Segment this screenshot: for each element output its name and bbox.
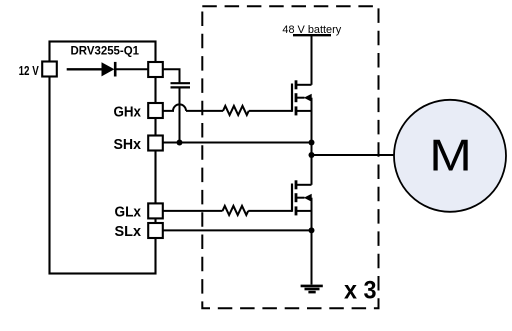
pin square SLx bbox=[148, 223, 163, 238]
svg-text:GHx: GHx bbox=[114, 104, 142, 120]
diode D1 bbox=[102, 62, 116, 77]
transistor Q1 high-side NMOS bbox=[292, 80, 312, 115]
capacitor C1 bootstrap bbox=[171, 83, 191, 87]
wire R1 to Q1 gate bbox=[249, 110, 292, 112]
svg-text:SHx: SHx bbox=[114, 137, 142, 153]
node junction dot SLx-source bbox=[309, 227, 315, 233]
resistor R2 gate low-side bbox=[223, 206, 249, 215]
wire GHx to gate with hop over capacitor wire bbox=[163, 104, 186, 111]
wire Q1 source to Q2 drain node bbox=[311, 98, 313, 185]
svg-text:GLx: GLx bbox=[115, 205, 142, 221]
wire capacitor bottom to SHx net bbox=[179, 87, 181, 142]
wire Q2 source to ground bbox=[311, 198, 313, 285]
wire SLx to source node bbox=[163, 229, 312, 231]
wire GLx to gate bbox=[163, 210, 223, 212]
battery rail bar bbox=[293, 34, 331, 36]
node junction dot SHx-capacitor bbox=[177, 140, 183, 146]
wire diode cathode to BST pin bbox=[116, 68, 148, 70]
wire phase node to motor bbox=[312, 154, 395, 156]
IC block U1 DRV3255-Q1 bbox=[50, 42, 156, 274]
transistor Q2 low-side NMOS bbox=[292, 180, 312, 215]
motor M1 bbox=[394, 100, 506, 212]
svg-text:SLx: SLx bbox=[115, 224, 142, 240]
node junction dot SHx-phase bbox=[309, 140, 315, 146]
wire diode anode bbox=[67, 68, 102, 70]
wire battery to Q1 drain bbox=[311, 35, 313, 85]
svg-text:DRV3255-Q1: DRV3255-Q1 bbox=[71, 45, 140, 57]
wire SHx to node bbox=[163, 142, 312, 144]
wire BST pin to capacitor top bbox=[163, 69, 180, 83]
svg-text:M: M bbox=[429, 131, 472, 180]
resistor R1 gate high-side bbox=[223, 106, 249, 115]
pin square SHx bbox=[148, 136, 163, 151]
pin square GHx bbox=[148, 103, 163, 118]
ground bbox=[301, 286, 323, 292]
pin square 12V input bbox=[42, 62, 57, 77]
svg-text:x 3: x 3 bbox=[344, 277, 377, 305]
pin square bootstrap bbox=[148, 62, 163, 77]
pin square GLx bbox=[148, 203, 163, 218]
dashed box half-bridge module bbox=[202, 6, 378, 308]
node junction dot phase-motor bbox=[309, 152, 315, 158]
wire R2 to Q2 gate bbox=[248, 210, 292, 212]
svg-text:12 V: 12 V bbox=[19, 63, 39, 78]
